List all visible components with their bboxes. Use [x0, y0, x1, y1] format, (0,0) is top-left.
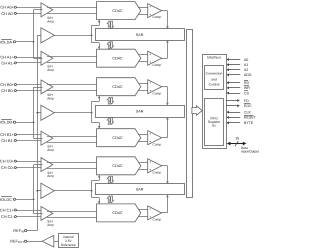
svg-text:CH B0-: CH B0- [1, 89, 14, 94]
svg-text:CH A1-: CH A1- [1, 61, 14, 66]
svg-text:Conversion: Conversion [206, 72, 223, 76]
svg-text:HOLDC: HOLDC [0, 197, 12, 202]
svg-text:A0: A0 [244, 57, 248, 62]
svg-text:Reference: Reference [61, 243, 76, 247]
svg-text:Amp: Amp [47, 68, 54, 72]
svg-text:Input/Output: Input/Output [241, 150, 259, 154]
svg-text:EOC: EOC [244, 104, 252, 109]
svg-text:ADD: ADD [244, 73, 252, 78]
svg-text:RD: RD [244, 81, 249, 86]
svg-text:Comp: Comp [153, 63, 162, 67]
svg-text:HOLDA: HOLDA [0, 40, 12, 45]
svg-text:Internal: Internal [63, 235, 74, 239]
svg-text:CH C1-: CH C1- [1, 215, 14, 220]
svg-text:Comp: Comp [153, 16, 162, 20]
svg-text:Amp: Amp [47, 224, 54, 228]
svg-text:SAR: SAR [136, 32, 144, 37]
svg-text:CDAC: CDAC [112, 85, 123, 90]
svg-text:Comp: Comp [153, 143, 162, 147]
svg-text:FD: FD [244, 98, 249, 103]
svg-text:A1: A1 [244, 63, 248, 68]
svg-text:CDAC: CDAC [112, 8, 123, 13]
svg-text:CH B1+: CH B1+ [0, 133, 14, 138]
svg-text:2.5V: 2.5V [65, 239, 72, 243]
svg-text:Amp: Amp [47, 175, 54, 179]
svg-text:A2: A2 [244, 68, 248, 73]
svg-text:Comp: Comp [153, 92, 162, 96]
svg-text:CH A1+: CH A1+ [0, 55, 14, 60]
svg-text:Amp: Amp [47, 148, 54, 152]
svg-text:16: 16 [235, 136, 239, 141]
svg-text:Register: Register [208, 121, 221, 125]
svg-text:Interface: Interface [207, 55, 221, 60]
svg-text:CH B0+: CH B0+ [0, 83, 14, 88]
svg-text:CH C0-: CH C0- [1, 166, 14, 171]
svg-text:CDAC: CDAC [112, 56, 123, 61]
svg-text:Control: Control [209, 83, 220, 87]
svg-text:Comp: Comp [153, 218, 162, 222]
svg-text:BYTE: BYTE [244, 121, 253, 126]
svg-text:HOLDB: HOLDB [0, 120, 12, 125]
svg-text:SAR: SAR [136, 187, 144, 192]
svg-text:CH A0-: CH A0- [1, 11, 14, 16]
svg-text:CH C1+: CH C1+ [0, 208, 14, 213]
svg-text:Amp: Amp [47, 20, 54, 24]
svg-text:CH B1-: CH B1- [1, 138, 14, 143]
svg-text:CS: CS [244, 91, 249, 96]
svg-text:CH A0+: CH A0+ [0, 5, 14, 10]
svg-text:Comp: Comp [153, 171, 162, 175]
svg-text:Amp: Amp [47, 97, 54, 101]
svg-text:CDAC: CDAC [112, 211, 123, 216]
svg-text:and: and [211, 78, 217, 82]
svg-text:Data: Data [241, 146, 248, 150]
svg-text:FIFO: FIFO [210, 117, 218, 121]
svg-text:CH C0+: CH C0+ [0, 159, 14, 164]
svg-text:6x: 6x [212, 124, 216, 128]
svg-text:CDAC: CDAC [112, 164, 123, 169]
svg-text:SAR: SAR [136, 109, 144, 114]
svg-text:CDAC: CDAC [112, 136, 123, 141]
svg-text:RESET: RESET [244, 115, 256, 120]
svg-text:CLK: CLK [244, 110, 251, 115]
svg-text:WR: WR [244, 86, 250, 91]
